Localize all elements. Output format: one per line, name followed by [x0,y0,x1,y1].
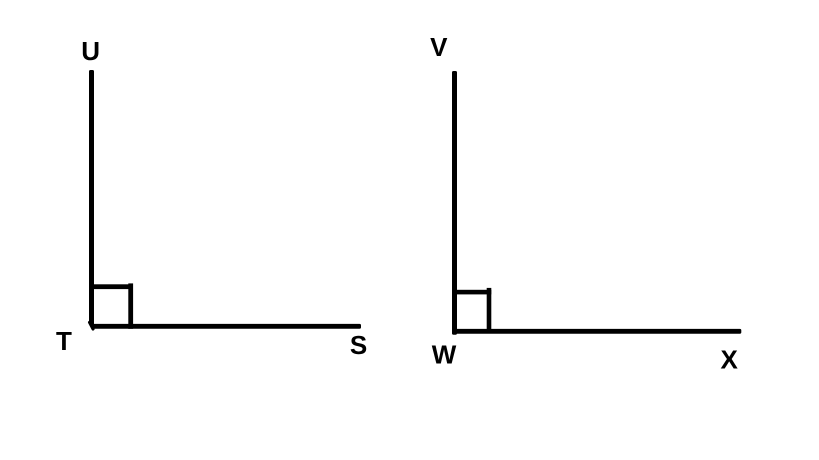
ray TS (horizontal segment, left figure) [89,324,361,329]
svg-text:W: W [432,340,457,370]
svg-text:S: S [350,330,367,360]
svg-text:T: T [56,326,72,356]
svg-text:V: V [430,32,448,62]
ray TU (vertical segment, left figure) [89,70,94,329]
chamfered outer corner at vertex T [89,322,94,330]
right-angle marker at T [91,283,133,328]
svg-text:U: U [81,36,100,66]
right-angle marker at W [454,288,491,334]
ray WX (horizontal segment, right figure) [452,329,741,334]
ray WV (vertical segment, right figure) [452,71,457,335]
svg-text:X: X [721,345,739,375]
